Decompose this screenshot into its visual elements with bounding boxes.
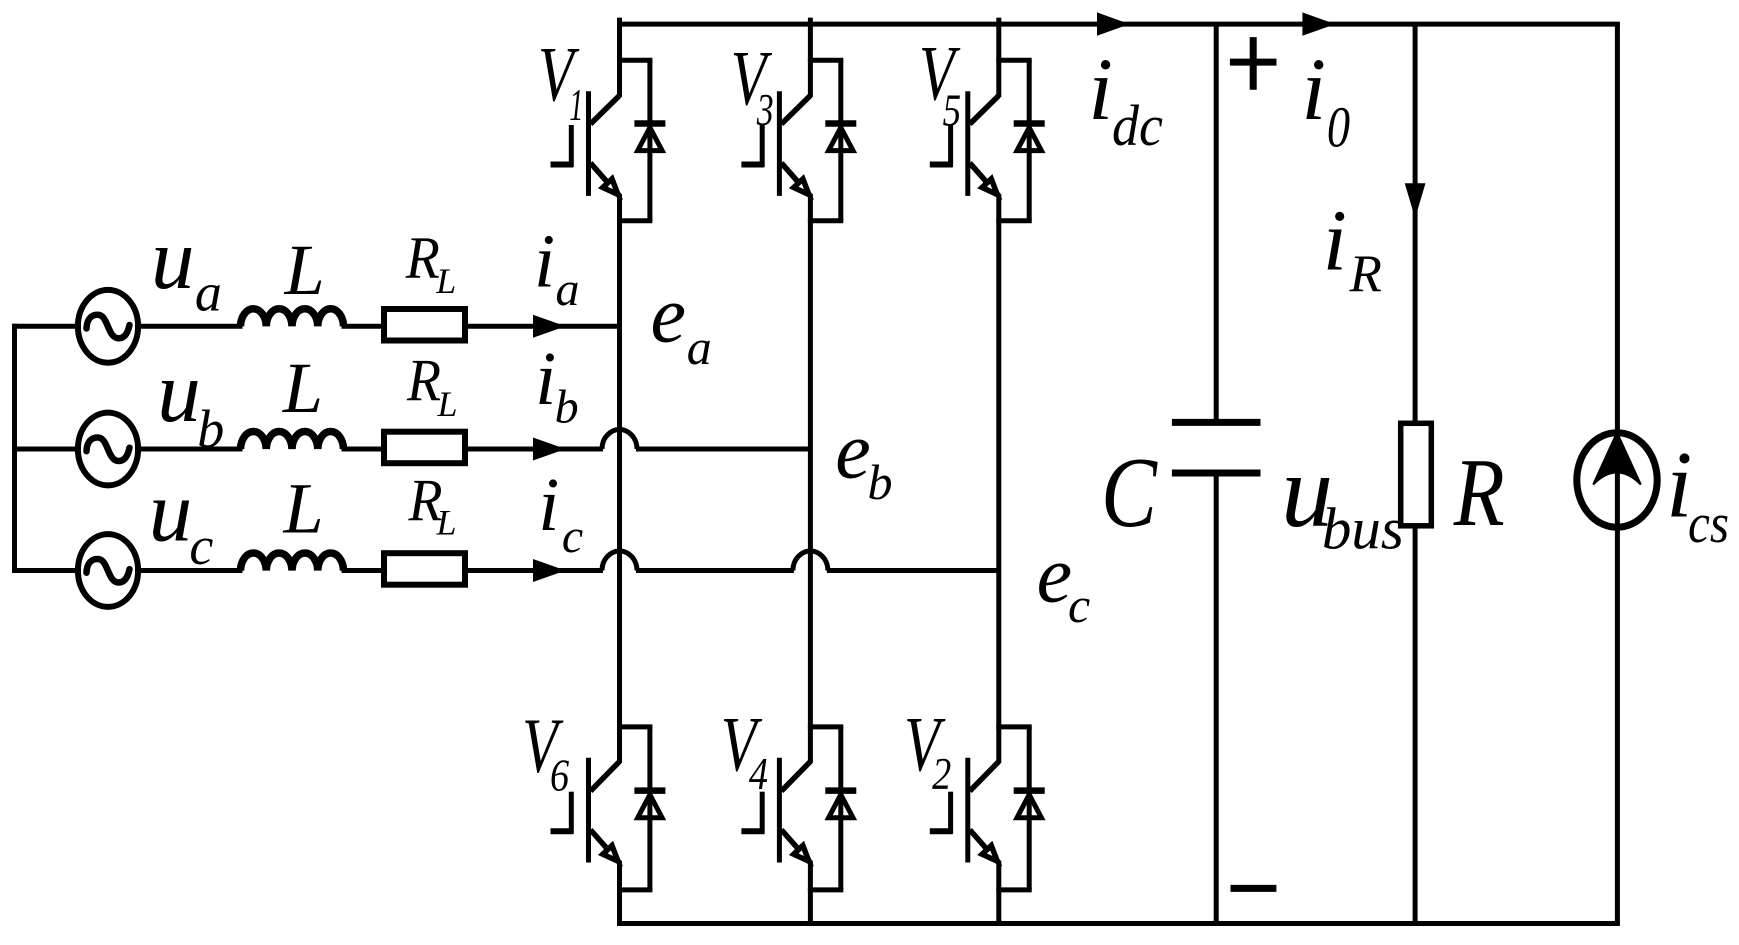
label ib <box>535 337 579 434</box>
label RL (phase c) <box>408 467 457 543</box>
IGBT module V4 with antiparallel diode <box>741 727 856 890</box>
IGBT module V3 with antiparallel diode <box>741 60 856 221</box>
svg-text:e: e <box>1037 531 1073 619</box>
V4 bottom connection stub <box>808 887 843 892</box>
svg-text:R: R <box>1349 245 1382 303</box>
antiparallel diode of V3: triangle (pointing up) <box>829 128 853 151</box>
svg-text:dc: dc <box>1112 94 1163 158</box>
label ua <box>151 210 222 322</box>
wire: phase c between crossings <box>636 568 794 573</box>
IGBT V6 emitter lead <box>591 830 620 863</box>
label i0 <box>1301 41 1350 160</box>
IGBT V4 collector lead <box>781 762 810 792</box>
svg-text:3: 3 <box>756 85 774 135</box>
IGBT module V5 with antiparallel diode <box>930 60 1045 221</box>
arrow: current iR direction <box>1405 183 1426 218</box>
wire: source uc to inductor L <box>135 568 242 573</box>
label RL (phase b) <box>406 347 457 424</box>
svg-text:u: u <box>149 463 193 560</box>
V5 bottom connection stub <box>996 218 1031 223</box>
V1 top connection stub <box>617 58 652 63</box>
antiparallel diode of V5: vertical lead <box>1027 60 1032 221</box>
svg-text:i: i <box>534 220 555 304</box>
svg-text:e: e <box>835 408 871 496</box>
svg-text:1: 1 <box>569 82 583 131</box>
antiparallel diode of V2: triangle (pointing up) <box>1017 795 1041 818</box>
label V3 <box>731 35 774 135</box>
svg-text:R: R <box>1453 438 1505 546</box>
wire: phase b from R_L to crossing at leg 1 <box>468 447 604 452</box>
label ic <box>538 463 583 563</box>
svg-text:bus: bus <box>1322 496 1404 562</box>
wire: leg 1 from V6 emitter to - rail <box>617 861 622 926</box>
antiparallel diode of V4: vertical lead <box>838 727 843 890</box>
svg-text:c: c <box>562 510 583 563</box>
wire: bus to source ua <box>12 324 81 329</box>
IGBT V6 emitter arrowhead <box>603 846 618 862</box>
wire: bus to source ub <box>12 447 81 452</box>
IGBT V1 gate bar <box>569 125 574 167</box>
wire: resistor R branch lower <box>1413 526 1418 924</box>
antiparallel diode of V1: cathode bar <box>634 120 665 127</box>
IGBT V5 collector lead <box>970 96 999 125</box>
capacitor C plates <box>1172 422 1261 473</box>
IGBT V3 gate lead <box>741 162 764 168</box>
V5 top connection stub <box>996 58 1031 63</box>
IGBT V1 emitter lead <box>591 163 620 196</box>
IGBT V4 gate lead <box>741 828 764 834</box>
wire: source ua to inductor L <box>135 324 242 329</box>
label V4 <box>721 702 768 800</box>
antiparallel diode of V3: vertical lead <box>838 60 843 221</box>
wire: positive DC rail (top) <box>617 22 1620 27</box>
label C (capacitor) <box>1101 437 1158 549</box>
label V6 <box>522 703 569 801</box>
wire: leg 3 from + rail to V5 collector <box>996 18 1001 97</box>
V6 bottom connection stub <box>617 887 652 892</box>
V6 top connection stub <box>617 724 652 729</box>
IGBT V4 emitter lead <box>781 830 810 863</box>
wire: capacitor branch lower <box>1214 473 1219 924</box>
antiparallel diode of V5: triangle (pointing up) <box>1017 128 1041 151</box>
antiparallel diode of V4: cathode bar <box>825 787 856 794</box>
svg-text:R: R <box>406 347 441 414</box>
wire: capacitor branch upper <box>1214 24 1219 422</box>
plus sign (+ DC bus) <box>1230 37 1277 90</box>
svg-text:u: u <box>151 210 195 307</box>
inductor L (phase a) <box>241 309 344 326</box>
arrow: current ia direction <box>533 315 566 338</box>
resistor R body <box>1401 423 1432 526</box>
IGBT V4 body bar <box>777 758 782 863</box>
IGBT V5 gate bar <box>948 125 953 167</box>
IGBT module V6 with antiparallel diode <box>551 727 666 890</box>
resistor R_L (phase c) <box>384 553 465 585</box>
V2 bottom connection stub <box>996 887 1031 892</box>
svg-text:L: L <box>435 261 456 301</box>
IGBT V6 body bar <box>586 758 591 863</box>
label R (resistor) <box>1453 438 1505 546</box>
minus sign (- DC bus) <box>1231 885 1277 892</box>
svg-text:6: 6 <box>550 752 569 802</box>
arrow: current ic direction <box>533 559 566 582</box>
antiparallel diode of V5: cathode bar <box>1014 120 1045 127</box>
arrow: current i0 on DC rail <box>1302 12 1335 35</box>
svg-text:L: L <box>437 384 458 424</box>
AC voltage source ub <box>78 413 138 486</box>
wire: bus to source uc <box>12 568 81 573</box>
svg-text:a: a <box>195 262 222 322</box>
inductor L (phase b) <box>241 432 344 449</box>
svg-text:b: b <box>555 380 579 433</box>
label ics <box>1666 432 1729 555</box>
IGBT V2 collector lead <box>970 762 999 792</box>
svg-text:a: a <box>556 263 580 316</box>
IGBT V1 emitter arrowhead <box>603 179 618 195</box>
IGBT V3 emitter lead <box>781 163 810 196</box>
wire: leg 2 from V3 emitter to node eb and down to V4 collector <box>808 194 813 763</box>
label ea (node) <box>651 272 712 376</box>
svg-text:i: i <box>538 463 559 547</box>
antiparallel diode of V1: vertical lead <box>647 60 652 221</box>
antiparallel diode of V3: cathode bar <box>825 120 856 127</box>
IGBT V5 gate lead <box>930 162 953 168</box>
wire: leg 1 from + rail to V1 collector <box>617 18 622 97</box>
svg-text:4: 4 <box>749 750 768 800</box>
V2 top connection stub <box>996 724 1031 729</box>
svg-text:i: i <box>535 337 556 421</box>
IGBT V5 emitter arrowhead <box>982 179 997 195</box>
antiparallel diode of V1: triangle (pointing up) <box>638 128 662 151</box>
IGBT V1 collector lead <box>591 96 620 125</box>
V4 top connection stub <box>808 724 843 729</box>
svg-text:i: i <box>1088 41 1113 139</box>
wire: current source branch upper <box>1615 24 1620 480</box>
IGBT module V1 with antiparallel diode <box>551 60 666 221</box>
svg-text:e: e <box>651 272 687 360</box>
label idc <box>1088 41 1163 158</box>
antiparallel diode of V6: triangle (pointing up) <box>638 795 662 818</box>
svg-text:b: b <box>197 399 224 459</box>
label ia <box>534 220 580 317</box>
IGBT V6 collector lead <box>591 762 620 792</box>
label uc <box>149 463 214 576</box>
inductor L (phase c) <box>241 553 344 570</box>
svg-text:c: c <box>189 516 213 576</box>
V3 bottom connection stub <box>808 218 843 223</box>
wire: current source branch lower <box>1615 480 1620 924</box>
svg-text:L: L <box>283 468 324 548</box>
svg-text:C: C <box>1101 437 1158 549</box>
wire: leg 2 from + rail to V3 collector <box>808 18 813 97</box>
svg-text:c: c <box>1068 577 1090 633</box>
svg-text:L: L <box>282 348 323 428</box>
svg-text:0: 0 <box>1327 96 1350 160</box>
antiparallel diode of V6: vertical lead <box>647 727 652 890</box>
wire hop: phase c crosses leg of V3/V4 <box>793 551 828 571</box>
IGBT V3 emitter arrowhead <box>794 179 809 195</box>
label RL (phase a) <box>405 224 456 301</box>
antiparallel diode of V2: cathode bar <box>1014 787 1045 794</box>
IGBT V2 gate lead <box>930 828 953 834</box>
IGBT V5 body bar <box>965 91 970 196</box>
label V2 <box>904 701 951 799</box>
wire: phase c from R_L to crossing at leg 1 <box>468 568 604 573</box>
arrow: current ib direction <box>533 438 566 461</box>
svg-text:5: 5 <box>943 85 961 135</box>
svg-text:R: R <box>405 224 440 291</box>
IGBT V2 gate bar <box>948 792 953 834</box>
wire: inductor to resistor R_L (phase a) <box>342 324 382 329</box>
wire hop: phase c crosses leg of V1/V6 <box>602 551 637 571</box>
current source ics symbol <box>1577 433 1657 528</box>
svg-text:2: 2 <box>932 750 951 800</box>
wire: phase a from R_L to node ea <box>468 324 620 329</box>
IGBT V1 gate lead <box>551 162 574 168</box>
svg-text:u: u <box>157 343 201 440</box>
label ub <box>157 343 224 459</box>
wire: leg 2 from V4 emitter to - rail <box>808 861 813 926</box>
svg-text:L: L <box>284 230 325 310</box>
svg-text:i: i <box>1323 192 1347 289</box>
wire: negative DC rail (bottom) <box>617 921 1620 926</box>
label V5 <box>919 30 961 135</box>
svg-text:b: b <box>868 454 893 510</box>
arrow: current idc on DC rail <box>1097 12 1130 35</box>
wire: inductor to resistor R_L (phase b) <box>342 447 382 452</box>
wire hop: phase b crosses leg of V1/V6 <box>602 430 637 450</box>
label V1 <box>538 31 583 130</box>
antiparallel diode of V6: cathode bar <box>634 787 665 794</box>
IGBT V4 gate bar <box>760 792 765 834</box>
label L (phase a) <box>284 230 325 310</box>
IGBT V5 emitter lead <box>970 163 999 196</box>
wire: phase c from crossing to node ec <box>827 568 999 573</box>
wire: resistor R branch upper <box>1413 24 1418 424</box>
IGBT V3 collector lead <box>781 96 810 125</box>
IGBT V1 body bar <box>586 91 591 196</box>
svg-text:i: i <box>1301 41 1326 139</box>
IGBT V3 gate bar <box>760 125 765 167</box>
wire: left vertical bus joining three sources <box>12 324 17 573</box>
IGBT V4 emitter arrowhead <box>794 846 809 862</box>
AC voltage source ua <box>78 290 138 363</box>
V3 top connection stub <box>808 58 843 63</box>
AC voltage source uc <box>78 534 138 607</box>
label eb (node) <box>835 408 892 510</box>
wire: leg 3 from V5 emitter to node ec and down to V2 collector <box>996 194 1001 763</box>
resistor R_L (phase b) <box>384 432 465 464</box>
label L (phase c) <box>283 468 324 548</box>
svg-text:cs: cs <box>1688 493 1729 555</box>
label ec (node) <box>1037 531 1091 633</box>
svg-text:L: L <box>436 503 457 543</box>
resistor R_L (phase a) <box>384 309 465 341</box>
IGBT V2 body bar <box>965 758 970 863</box>
IGBT module V2 with antiparallel diode <box>930 727 1045 890</box>
wire: leg 1 from V1 emitter to node ea and down to V6 collector <box>617 194 622 763</box>
wire: source ub to inductor L <box>135 447 242 452</box>
label iR <box>1323 192 1382 304</box>
svg-text:a: a <box>687 319 712 375</box>
IGBT V2 emitter arrowhead <box>982 846 997 862</box>
IGBT V2 emitter lead <box>970 830 999 863</box>
wire: inductor to resistor R_L (phase c) <box>342 568 382 573</box>
IGBT V3 body bar <box>777 91 782 196</box>
V1 bottom connection stub <box>617 218 652 223</box>
IGBT V6 gate lead <box>551 828 574 834</box>
label ubus <box>1281 434 1404 562</box>
wire: leg 3 from V2 emitter to - rail <box>996 861 1001 926</box>
label L (phase b) <box>282 348 323 428</box>
wire: phase b from crossing to node eb <box>636 447 810 452</box>
IGBT V6 gate bar <box>569 792 574 834</box>
antiparallel diode of V2: vertical lead <box>1027 727 1032 890</box>
antiparallel diode of V4: triangle (pointing up) <box>829 795 853 818</box>
